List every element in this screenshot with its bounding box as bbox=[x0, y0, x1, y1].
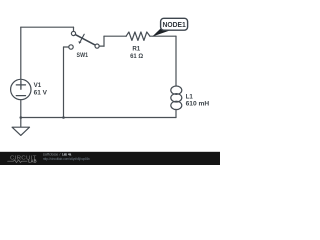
footer bar bbox=[0, 152, 220, 165]
wire: V1 bottom to bottom rail bbox=[20, 100, 22, 118]
svg-text:nttp://circuitlab.com/c6ydh8jh: nttp://circuitlab.com/c6ydh8jhqx86v bbox=[43, 157, 90, 161]
wire: R1 right lead to top-right corner bbox=[150, 35, 176, 37]
value 61 ohm bbox=[130, 53, 143, 60]
switch SW1 bbox=[69, 31, 99, 49]
junction: V1/ground on bottom rail bbox=[20, 116, 23, 119]
svg-text:softdose /: softdose / bbox=[43, 152, 61, 156]
node NODE1 label box bbox=[161, 18, 188, 30]
svg-text:LAB: LAB bbox=[28, 159, 36, 164]
wire: bottom horizontal bbox=[21, 117, 176, 119]
wire: stub down to SW1 top terminal bbox=[73, 27, 75, 31]
wire: SW1 branch vertical down to bottom rail bbox=[63, 47, 65, 118]
node NODE1 flag pointer bbox=[152, 28, 169, 37]
svg-text:SW1: SW1 bbox=[77, 52, 89, 59]
label L1 bbox=[186, 93, 194, 100]
wire: SW1 right terminal to riser bbox=[99, 45, 104, 47]
svg-text:V1: V1 bbox=[34, 82, 42, 89]
wire: right vertical from corner down to L1 top bbox=[175, 36, 177, 86]
ground bbox=[12, 118, 29, 136]
junction: SW1 branch on bottom rail bbox=[62, 116, 65, 119]
footer logo CIRCUIT LAB bbox=[8, 155, 37, 163]
wire: riser up to resistor level bbox=[103, 36, 105, 46]
svg-text:R1: R1 bbox=[132, 45, 140, 52]
value 61 V bbox=[34, 89, 48, 96]
label R1 bbox=[132, 45, 140, 52]
svg-text:NODE1: NODE1 bbox=[163, 20, 186, 29]
footer text line 1: softdose / Lab 4a bbox=[43, 152, 72, 156]
resistor R1 bbox=[126, 32, 150, 40]
wire: L1 bottom stub bbox=[175, 109, 177, 117]
inductor L1 bbox=[171, 86, 182, 110]
label V1 bbox=[34, 82, 42, 89]
svg-text:Lab 4a: Lab 4a bbox=[62, 152, 72, 156]
wire: top horizontal from corner to SW1 top terminal bbox=[21, 26, 74, 28]
svg-text:610 mH: 610 mH bbox=[186, 101, 210, 108]
wire: SW1 lower terminal stub left bbox=[64, 46, 69, 48]
value 610 mH bbox=[186, 101, 210, 108]
svg-text:L1: L1 bbox=[186, 93, 194, 100]
voltage source V1 bbox=[11, 79, 31, 99]
svg-text:61 Ω: 61 Ω bbox=[130, 53, 143, 60]
svg-text:61 V: 61 V bbox=[34, 89, 48, 96]
footer text line 2: url bbox=[43, 157, 90, 161]
wire: left vertical from top corner down to V1 top bbox=[20, 27, 22, 79]
wire: horizontal to R1 left lead bbox=[104, 35, 126, 37]
label SW1 bbox=[77, 52, 89, 59]
